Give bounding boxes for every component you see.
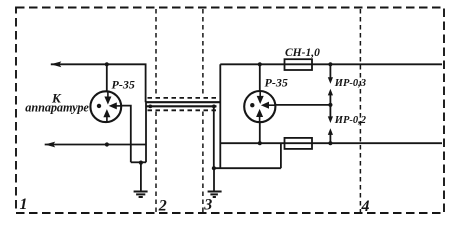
svg-text:Р-35: Р-35	[112, 78, 135, 92]
svg-text:ИР-0,3: ИР-0,3	[334, 78, 366, 89]
svg-text:2: 2	[158, 197, 167, 214]
svg-text:СН-1,0: СН-1,0	[285, 47, 320, 59]
svg-text:Р-35: Р-35	[265, 76, 288, 90]
svg-text:аппаратуре: аппаратуре	[25, 101, 89, 115]
svg-text:4: 4	[361, 198, 370, 215]
svg-text:ИР-0,2: ИР-0,2	[334, 115, 367, 126]
svg-text:3: 3	[203, 197, 212, 214]
svg-text:1: 1	[20, 196, 28, 213]
